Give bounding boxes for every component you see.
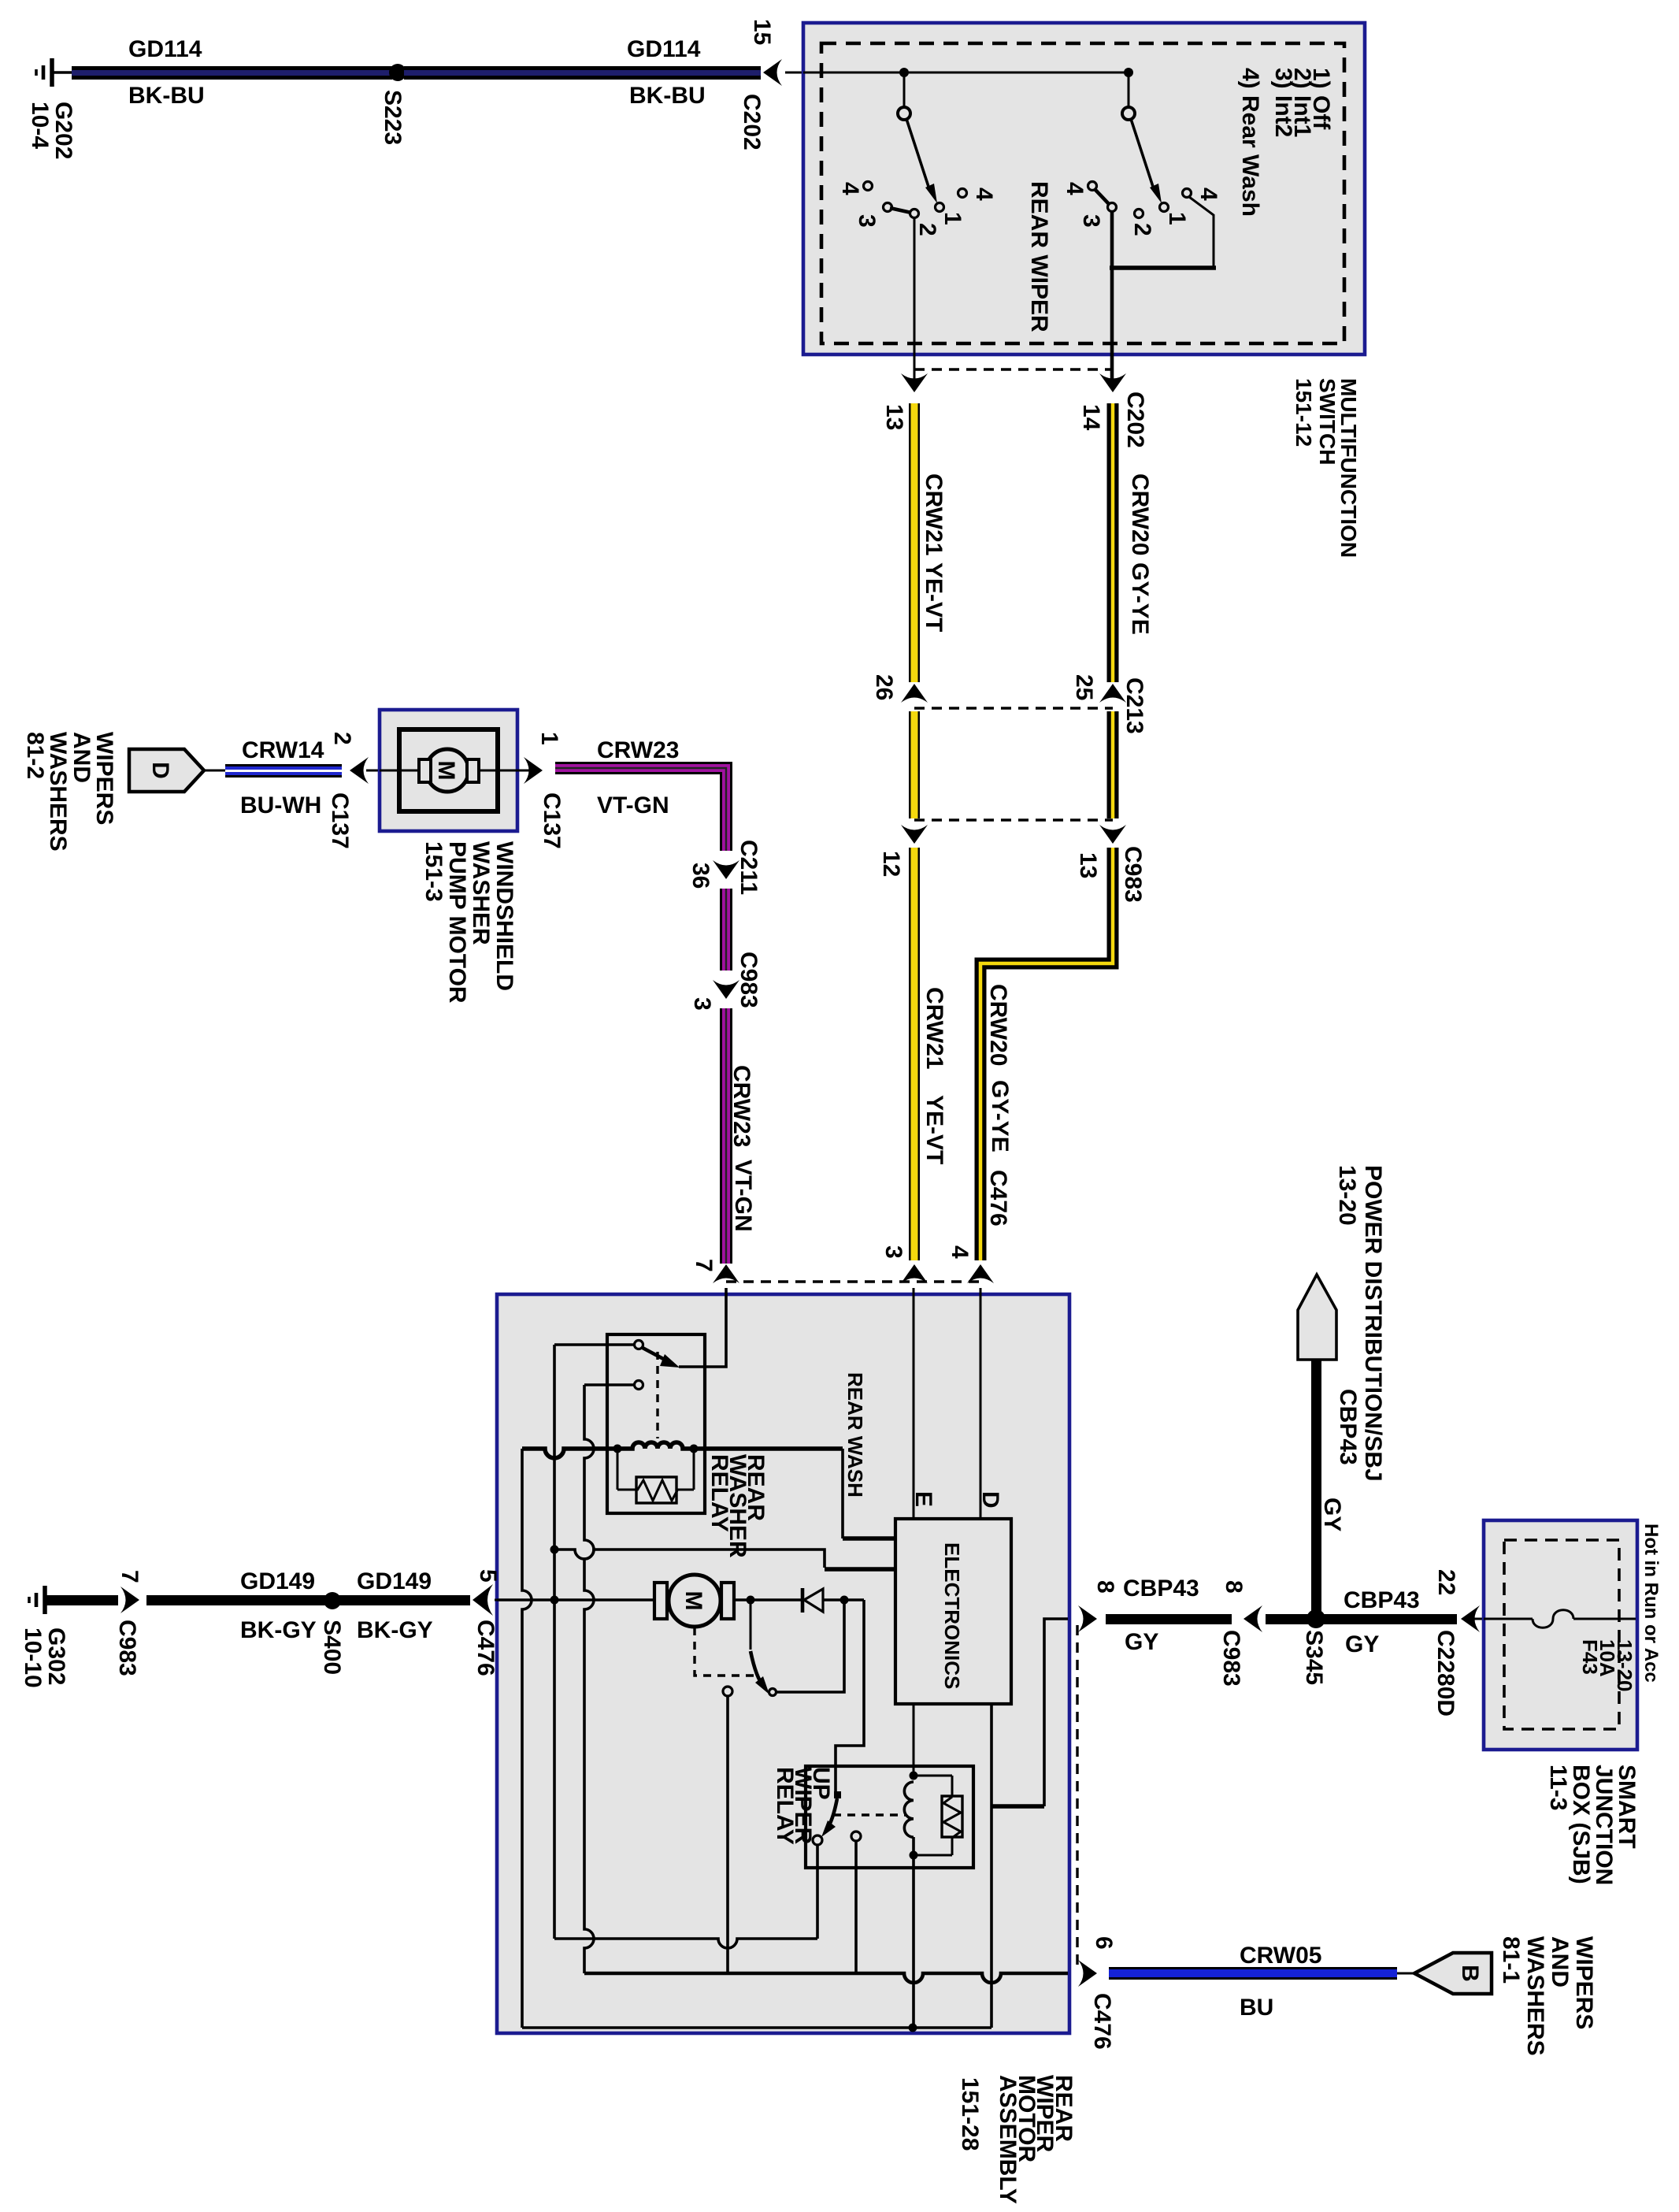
SJB inner dashed border bbox=[1504, 1540, 1619, 1729]
connector arrow C211 pin 36 bbox=[713, 860, 739, 879]
svg-text:26: 26 bbox=[871, 674, 897, 700]
wiper motor M circle bbox=[669, 1575, 721, 1627]
label G302 10-10 bbox=[20, 1627, 69, 1688]
switch SW1 bridge 3-2 bbox=[890, 208, 911, 213]
wire CRW20 segment 2 bbox=[1107, 711, 1119, 818]
svg-text:C202: C202 bbox=[1122, 392, 1148, 448]
wire CBP43 GY segment 2 bbox=[1266, 1614, 1457, 1624]
svg-text:1: 1 bbox=[536, 732, 562, 745]
wire pin7 into box bbox=[679, 1288, 726, 1367]
svg-text:BU: BU bbox=[1240, 1995, 1273, 2021]
connector arrow C213 pin 25 bbox=[1099, 684, 1126, 703]
svg-text:36: 36 bbox=[688, 863, 713, 889]
wire up relay contact A down bbox=[816, 1845, 819, 1939]
connector arrow pin 13 bbox=[901, 373, 928, 392]
svg-text:13: 13 bbox=[881, 404, 907, 430]
svg-text:GD149: GD149 bbox=[240, 1568, 315, 1594]
up relay contact B bbox=[851, 1832, 861, 1841]
wire GD149 segment 1 bbox=[146, 1595, 326, 1605]
label SMART JUNCTION BOX (SJB) 11-3 bbox=[1545, 1765, 1640, 1885]
svg-text:YE-VT: YE-VT bbox=[921, 562, 947, 632]
wiper motor M brush right bbox=[721, 1583, 734, 1619]
label UP WIPER RELAY bbox=[772, 1767, 834, 1845]
svg-text:C983: C983 bbox=[114, 1620, 140, 1676]
up relay arm top contact bbox=[834, 1791, 841, 1798]
svg-text:4: 4 bbox=[1062, 182, 1088, 195]
pump motor wire left bbox=[380, 770, 421, 772]
wire SW1 contact2 down to pin 13 bbox=[914, 218, 916, 385]
up relay contact A bbox=[813, 1835, 822, 1845]
wire CRW23 segment 2 bbox=[720, 889, 732, 971]
connector C983 dashed line bbox=[914, 818, 1113, 821]
svg-text:CRW20: CRW20 bbox=[1127, 473, 1153, 555]
svg-text:ASSEMBLY: ASSEMBLY bbox=[995, 2075, 1021, 2204]
wire SW2 contact 4 right jog bbox=[1189, 197, 1214, 266]
svg-text:81-1: 81-1 bbox=[1498, 1936, 1524, 1984]
wire relay NO to left bbox=[584, 1383, 635, 1386]
svg-text:2: 2 bbox=[329, 732, 355, 745]
connector arrow C983 pin 8 bbox=[1243, 1605, 1262, 1632]
wire electronics to up-relay coil bbox=[913, 1704, 915, 1776]
svg-text:GD149: GD149 bbox=[357, 1568, 432, 1594]
svg-text:151-3: 151-3 bbox=[421, 841, 447, 902]
svg-text:C476: C476 bbox=[1089, 1993, 1115, 2050]
svg-text:6: 6 bbox=[1091, 1936, 1117, 1950]
switch SW1 arm bbox=[906, 119, 937, 203]
svg-text:M: M bbox=[680, 1591, 706, 1611]
svg-text:PUMP MOTOR: PUMP MOTOR bbox=[444, 841, 470, 1004]
svg-text:12: 12 bbox=[878, 851, 904, 877]
svg-text:8: 8 bbox=[1092, 1580, 1118, 1594]
svg-text:14: 14 bbox=[1078, 404, 1104, 431]
svg-text:151-28: 151-28 bbox=[957, 2077, 983, 2151]
power distribution pentagon bbox=[1298, 1275, 1336, 1360]
wire up relay contact B down bbox=[854, 1841, 858, 1973]
svg-text:C213: C213 bbox=[1121, 677, 1147, 734]
svg-text:G302: G302 bbox=[43, 1627, 69, 1685]
switch SW2 contact 1 bbox=[1160, 203, 1169, 212]
svg-text:BK-GY: BK-GY bbox=[357, 1617, 433, 1643]
label F43 10A 13-20 bbox=[1578, 1639, 1636, 1692]
svg-text:VT-GN: VT-GN bbox=[730, 1160, 756, 1232]
svg-text:151-12: 151-12 bbox=[1292, 378, 1316, 447]
windshield washer pump motor box bbox=[380, 710, 517, 831]
switch SW1 contact 2 bbox=[910, 210, 919, 218]
svg-text:C983: C983 bbox=[736, 952, 762, 1008]
wire SW2 thick link bbox=[1110, 265, 1216, 270]
svg-text:CRW21: CRW21 bbox=[921, 473, 947, 555]
connector arrow C137 pin 2 bbox=[350, 757, 369, 784]
smart junction box bbox=[1484, 1520, 1637, 1750]
pump motor brush left bbox=[419, 759, 431, 782]
up wiper relay box bbox=[806, 1766, 973, 1868]
svg-text:10-10: 10-10 bbox=[20, 1627, 46, 1688]
wire v2 from relay common down bbox=[553, 1345, 556, 1939]
switch SW1 pivot bbox=[898, 107, 910, 120]
wire CRW23 segment 3 bbox=[720, 1008, 732, 1264]
wire CBP43 GY segment 1 bbox=[1106, 1614, 1232, 1624]
fuse F43 wire right bbox=[1573, 1618, 1636, 1620]
connector arrow C476 pin 7 bbox=[713, 1264, 739, 1283]
wire electronics right pin down bbox=[990, 1704, 993, 2028]
washer relay resistor bbox=[613, 1445, 699, 1504]
svg-text:C476: C476 bbox=[473, 1620, 499, 1676]
svg-text:RELAY: RELAY bbox=[772, 1767, 798, 1845]
node row C coil bbox=[909, 2024, 917, 2032]
svg-text:WINDSHIELD: WINDSHIELD bbox=[491, 841, 517, 991]
wire CRW21 segment 2 bbox=[909, 711, 920, 818]
svg-text:5: 5 bbox=[475, 1569, 501, 1583]
offpage connector B bbox=[1414, 1953, 1492, 1994]
pump motor brush right bbox=[467, 759, 479, 782]
svg-text:4: 4 bbox=[1195, 187, 1221, 201]
wire CRW05 to B bbox=[1397, 1973, 1416, 1975]
switch SW2 contact 4 right bbox=[1183, 189, 1192, 198]
svg-text:4: 4 bbox=[947, 1245, 973, 1259]
svg-text:7: 7 bbox=[691, 1259, 717, 1272]
wire arrow to SJB bbox=[1474, 1618, 1485, 1620]
switch SW1 contact 1 bbox=[936, 203, 944, 212]
fuse F43 wire left bbox=[1484, 1618, 1533, 1620]
wire CRW20 GY-YE segment 1 bbox=[1107, 403, 1119, 682]
label G202 10-4 bbox=[27, 102, 76, 159]
pump motor circle M bbox=[426, 749, 469, 792]
wire GD114 segment 2 (BK-BU) bbox=[404, 66, 761, 80]
svg-text:B: B bbox=[1457, 1965, 1483, 1982]
svg-text:2: 2 bbox=[914, 223, 940, 236]
switch SW1 stem bbox=[903, 72, 906, 107]
svg-text:BU-WH: BU-WH bbox=[240, 792, 321, 818]
wire SW2 contact3 down to pin 14 bbox=[1110, 212, 1114, 385]
svg-text:4: 4 bbox=[837, 182, 863, 195]
svg-text:BK-BU: BK-BU bbox=[128, 83, 205, 109]
up relay arm bbox=[821, 1798, 837, 1837]
svg-text:C983: C983 bbox=[1120, 846, 1146, 903]
svg-text:CBP43: CBP43 bbox=[1335, 1389, 1361, 1465]
pump motor wire right bbox=[477, 770, 539, 772]
fuse F43 element bbox=[1533, 1610, 1573, 1628]
svg-text:AND: AND bbox=[69, 732, 95, 783]
connector arrow C476 pin 6 bbox=[1078, 1960, 1097, 1987]
rear washer relay box bbox=[607, 1334, 705, 1513]
connector arrow C983 pin 3 bbox=[713, 980, 739, 999]
svg-text:GD114: GD114 bbox=[627, 36, 701, 62]
svg-text:1: 1 bbox=[940, 212, 966, 225]
connector arrow C983 pin 13 bbox=[1099, 825, 1126, 844]
wire park contact A down bbox=[726, 1696, 729, 1973]
switch SW2 pivot bbox=[1122, 107, 1135, 120]
svg-text:2: 2 bbox=[1129, 223, 1155, 236]
connector arrow C213 pin 26 bbox=[901, 684, 928, 703]
wire up relay coil down bbox=[912, 1837, 915, 2028]
multifunction switch box bbox=[803, 23, 1365, 354]
svg-text:4) Rear Wash: 4) Rear Wash bbox=[1237, 68, 1263, 217]
diode CR1 bbox=[802, 1588, 823, 1613]
wire motor to diode bbox=[734, 1598, 802, 1601]
node diode loop bbox=[840, 1596, 849, 1605]
washer relay coil wire bbox=[522, 1442, 843, 1458]
svg-text:3: 3 bbox=[1078, 214, 1104, 228]
svg-text:GY: GY bbox=[1319, 1498, 1345, 1531]
wire diode to corner bbox=[823, 1598, 864, 1601]
svg-text:GY: GY bbox=[1345, 1631, 1379, 1657]
svg-text:REAR WIPER: REAR WIPER bbox=[1026, 181, 1052, 332]
label POWER DISTRIBUTION/SBJ 13-20 bbox=[1334, 1165, 1386, 1482]
connector C476 dashed line (top) bbox=[726, 1280, 980, 1282]
svg-text:CBP43: CBP43 bbox=[1123, 1575, 1199, 1601]
svg-text:CRW23: CRW23 bbox=[597, 737, 679, 763]
svg-text:SWITCH: SWITCH bbox=[1315, 378, 1340, 465]
svg-text:4: 4 bbox=[971, 187, 997, 201]
svg-text:GY-YE: GY-YE bbox=[987, 1080, 1013, 1152]
svg-text:D: D bbox=[977, 1491, 1003, 1509]
label MULTIFUNCTION SWITCH 151-12 bbox=[1292, 378, 1361, 558]
svg-text:11-3: 11-3 bbox=[1545, 1765, 1571, 1810]
svg-text:GD114: GD114 bbox=[128, 36, 202, 62]
wire CBP43 vertical from power distribution bbox=[1311, 1360, 1321, 1613]
svg-text:VT-GN: VT-GN bbox=[597, 792, 669, 818]
label WINDSHIELD WASHER PUMP MOTOR 151-3 bbox=[421, 841, 517, 1004]
svg-text:RELAY: RELAY bbox=[706, 1454, 732, 1532]
splice S223 bbox=[389, 64, 406, 81]
label switch positions bbox=[1237, 68, 1334, 217]
wire relay common to left bbox=[554, 1343, 635, 1346]
switch SW1 contact 4 left bbox=[864, 182, 873, 191]
up relay resistor bbox=[914, 1776, 962, 1855]
motor park contact A bbox=[723, 1687, 732, 1696]
wire pin4 to D bbox=[980, 1288, 982, 1519]
switch SW2 labels 4 3 2 1 4 bbox=[1062, 182, 1221, 236]
wire into switch box bbox=[785, 72, 805, 74]
washer relay arm bbox=[643, 1348, 680, 1368]
wire pin8 interior bbox=[991, 1619, 1068, 1806]
svg-text:CRW20: CRW20 bbox=[985, 984, 1011, 1066]
connector arrow C476 pin 3 bbox=[901, 1264, 928, 1283]
switch SW2 contact 2 bbox=[1135, 210, 1143, 218]
node motor switch pivot bbox=[747, 1596, 755, 1605]
motor park switch stem bbox=[750, 1600, 752, 1650]
wire GD114 segment 1 (BK-BU) bbox=[72, 66, 392, 80]
svg-text:S223: S223 bbox=[380, 90, 406, 145]
ELECTRONICS box bbox=[895, 1519, 1011, 1704]
svg-text:BK-BU: BK-BU bbox=[629, 83, 706, 109]
svg-text:3) Int2: 3) Int2 bbox=[1270, 68, 1296, 137]
svg-text:CBP43: CBP43 bbox=[1344, 1587, 1420, 1613]
wire CRW20 segment 3 with jog bbox=[980, 848, 1113, 1260]
svg-text:C137: C137 bbox=[539, 792, 565, 849]
svg-text:3: 3 bbox=[880, 1245, 906, 1259]
node junction left switch bbox=[899, 68, 909, 77]
label REAR WIPER MOTOR ASSEMBLY 151-28 bbox=[957, 2075, 1077, 2204]
label WIPERS AND WASHERS 81-2 bbox=[22, 732, 117, 852]
svg-text:WASHER: WASHER bbox=[468, 841, 494, 945]
wire CRW23 VT-GN horizontal + corner bbox=[555, 768, 726, 851]
node v2-2031 bbox=[550, 1596, 559, 1605]
svg-text:S345: S345 bbox=[1301, 1630, 1327, 1685]
wire park contact B loop bbox=[776, 1600, 844, 1692]
svg-text:C202: C202 bbox=[739, 94, 765, 150]
rear wiper motor assembly box bbox=[497, 1294, 1069, 2033]
switch SW1 contact 4 right bbox=[958, 189, 967, 198]
switch SW1 labels 4 3 2 1 4 bbox=[837, 182, 997, 236]
connector arrow C476 pin 5 bbox=[473, 1584, 493, 1616]
connector arrow C202 pin 15 bbox=[763, 59, 782, 86]
mechanical dashed link motor bbox=[695, 1627, 754, 1676]
svg-text:BK-GY: BK-GY bbox=[240, 1617, 317, 1643]
connector C213 dashed line bbox=[914, 707, 1113, 709]
splice S400 bbox=[324, 1592, 341, 1609]
switch SW2 bridge 4-3 bbox=[1095, 189, 1110, 205]
wire CRW21 YE-VT segment 1 bbox=[909, 403, 920, 682]
svg-text:Hot in Run or Acc: Hot in Run or Acc bbox=[1640, 1524, 1662, 1683]
svg-text:7: 7 bbox=[117, 1570, 143, 1583]
ground G202 bbox=[36, 58, 72, 87]
wire arrow to motor bbox=[366, 770, 421, 772]
node junction right switch bbox=[1124, 68, 1133, 77]
washer relay common contact bbox=[635, 1341, 643, 1349]
svg-text:3: 3 bbox=[689, 997, 715, 1011]
svg-text:CRW05: CRW05 bbox=[1240, 1943, 1321, 1969]
label REAR WASHER RELAY bbox=[706, 1454, 769, 1558]
svg-text:13: 13 bbox=[1075, 852, 1101, 878]
svg-text:YE-VT: YE-VT bbox=[921, 1095, 947, 1164]
connector arrow C137 pin 1 bbox=[524, 757, 543, 784]
wire CRW21 segment 3 bbox=[909, 848, 920, 1260]
connector C202 dashed line bbox=[914, 368, 1113, 370]
svg-text:1: 1 bbox=[1164, 212, 1190, 225]
wiper motor M brush left bbox=[654, 1583, 667, 1619]
up relay coil bbox=[904, 1772, 917, 1860]
up relay dashed link bbox=[833, 1813, 906, 1816]
svg-text:POWER DISTRIBUTION/SBJ: POWER DISTRIBUTION/SBJ bbox=[1360, 1165, 1386, 1482]
svg-text:25: 25 bbox=[1071, 674, 1097, 700]
connector arrow C983 pin 12 bbox=[901, 825, 928, 844]
svg-text:G202: G202 bbox=[50, 102, 76, 159]
switch SW2 contact 4 left bbox=[1088, 182, 1097, 191]
wire corner down to up-relay arm bbox=[836, 1600, 864, 1791]
wire v1 left loop bbox=[522, 1449, 532, 2028]
svg-text:AND: AND bbox=[1547, 1936, 1573, 1987]
svg-text:3: 3 bbox=[854, 214, 880, 228]
switch SW2 contact 3 bbox=[1108, 203, 1117, 212]
wire bottom row A bbox=[554, 1939, 817, 1948]
switch SW2 arm bbox=[1131, 119, 1162, 203]
svg-text:D: D bbox=[147, 762, 173, 779]
svg-text:81-2: 81-2 bbox=[22, 732, 48, 779]
svg-text:S400: S400 bbox=[319, 1620, 345, 1675]
wire v3 from relay NO down bbox=[584, 1385, 594, 1973]
wire from D bbox=[204, 770, 225, 772]
wire arrow to box pin5 bbox=[495, 1599, 499, 1601]
wire CRW05 BU bbox=[1109, 1967, 1397, 1980]
wire ground stub to C983 bbox=[45, 1595, 118, 1605]
motor park contact B bbox=[769, 1689, 776, 1696]
svg-text:CRW14: CRW14 bbox=[242, 737, 324, 763]
wire across switch box bbox=[803, 72, 1129, 74]
pump motor inner box bbox=[399, 729, 498, 811]
svg-text:WIPERS: WIPERS bbox=[1571, 1936, 1597, 2029]
motor park switch arm bbox=[751, 1651, 769, 1694]
svg-text:8: 8 bbox=[1221, 1580, 1247, 1594]
svg-text:22: 22 bbox=[1433, 1569, 1459, 1595]
svg-text:C983: C983 bbox=[1218, 1630, 1244, 1687]
wire bottom row B pin6 bbox=[584, 1973, 1068, 1983]
svg-text:GY: GY bbox=[1125, 1629, 1158, 1655]
connector arrow C983 pin 7 bbox=[120, 1587, 139, 1613]
connector arrow C476 pin 8 (right) bbox=[1078, 1605, 1097, 1632]
node v2-1967 bbox=[550, 1546, 559, 1554]
svg-text:C211: C211 bbox=[736, 840, 762, 895]
svg-text:WASHERS: WASHERS bbox=[1522, 1936, 1548, 2056]
washer relay NO contact bbox=[635, 1381, 643, 1390]
offpage connector D bbox=[129, 749, 204, 792]
switch box inner dashed border bbox=[821, 43, 1344, 343]
svg-text:M: M bbox=[433, 761, 459, 781]
connector arrow C2280D pin 22 bbox=[1461, 1605, 1480, 1632]
svg-text:ELECTRONICS: ELECTRONICS bbox=[940, 1542, 964, 1689]
wire pin3 to E bbox=[913, 1288, 915, 1519]
wire row 1967 to electronics bbox=[554, 1550, 895, 1569]
wire GD149 segment 2 bbox=[339, 1595, 470, 1605]
svg-text:C476: C476 bbox=[985, 1170, 1011, 1227]
connector arrow pin 14 bbox=[1099, 373, 1126, 392]
svg-text:15: 15 bbox=[749, 19, 775, 45]
svg-text:CRW21: CRW21 bbox=[921, 987, 947, 1069]
svg-text:CRW23: CRW23 bbox=[728, 1065, 754, 1147]
switch SW2 stem bbox=[1128, 72, 1130, 107]
splice S345 bbox=[1307, 1609, 1325, 1628]
svg-text:C137: C137 bbox=[327, 792, 353, 849]
label WIPERS AND WASHERS 81-1 bbox=[1498, 1936, 1597, 2056]
svg-text:REAR WASH: REAR WASH bbox=[843, 1372, 867, 1498]
svg-text:13-20: 13-20 bbox=[1613, 1639, 1636, 1692]
wire motor feed row bbox=[497, 1598, 656, 1601]
connector arrow C476 pin 4 bbox=[967, 1264, 994, 1283]
washer relay coil feed to electronics bbox=[843, 1449, 895, 1538]
svg-text:GY-YE: GY-YE bbox=[1127, 562, 1153, 635]
svg-text:13-20: 13-20 bbox=[1334, 1165, 1360, 1226]
svg-text:C2280D: C2280D bbox=[1433, 1630, 1458, 1717]
switch SW1 contact 3 bbox=[884, 203, 892, 212]
svg-text:10-4: 10-4 bbox=[27, 102, 53, 149]
washer relay dashed link bbox=[656, 1352, 658, 1438]
svg-text:E: E bbox=[910, 1491, 936, 1507]
connector C476 dashed line (right) bbox=[1076, 1625, 1078, 1967]
wire CRW14 BU-WH bbox=[225, 764, 342, 778]
wire bottom row C bbox=[522, 2026, 991, 2029]
ground G302 bbox=[29, 1586, 45, 1614]
